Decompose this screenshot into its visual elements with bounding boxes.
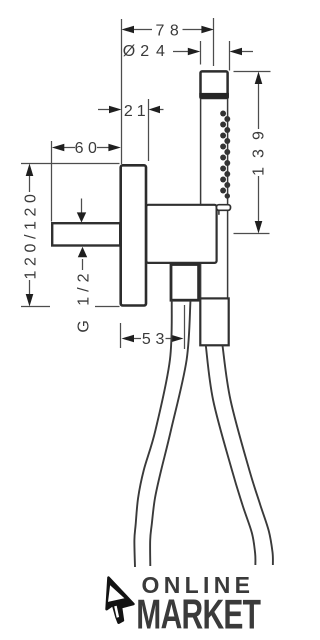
svg-text:60: 60 (75, 140, 102, 157)
dimension 139 shower length (234, 72, 271, 234)
svg-text:78: 78 (156, 22, 185, 39)
hose left run (134, 300, 190, 567)
dimension 60 pipe length (52, 140, 121, 222)
hose outlet block (171, 265, 199, 301)
svg-text:120/120: 120/120 (23, 189, 40, 279)
dimension G 1/2 arrows (75, 199, 92, 333)
svg-text:53: 53 (142, 331, 169, 348)
hose nut (200, 298, 228, 345)
svg-text:139: 139 (250, 122, 267, 176)
logo text MARKET (136, 590, 261, 637)
holder clamp nub (217, 205, 231, 215)
dimension 78 (122, 22, 214, 39)
extension line shower left edge (200, 41, 202, 65)
holder body block (146, 205, 216, 263)
dimension 120/120 (21, 164, 120, 307)
svg-text:G 1/2: G 1/2 (75, 269, 92, 333)
svg-text:MARKET: MARKET (136, 590, 261, 637)
hand shower bead texture (220, 111, 230, 199)
logo text ONLINE (142, 572, 256, 598)
supply pipe G1/2 stub (52, 223, 120, 245)
dimension 21 plate thickness (98, 103, 164, 120)
hose right run (206, 346, 273, 566)
logo cursor icon (107, 578, 134, 623)
dimension 53 hose offset (121, 305, 185, 349)
svg-text:21: 21 (124, 103, 150, 120)
wall plate side view (121, 165, 146, 305)
extension line plate front (148, 99, 150, 161)
extension line shower right edge (229, 41, 231, 71)
dimension diameter 24 (123, 43, 253, 60)
extension line left (wall plane) (121, 19, 123, 164)
hand shower cap (199, 71, 229, 98)
svg-text:Ø: Ø (123, 43, 135, 60)
svg-text:24: 24 (140, 43, 172, 60)
extension line shower centerline (213, 18, 215, 66)
hand shower handle edges (201, 97, 228, 298)
